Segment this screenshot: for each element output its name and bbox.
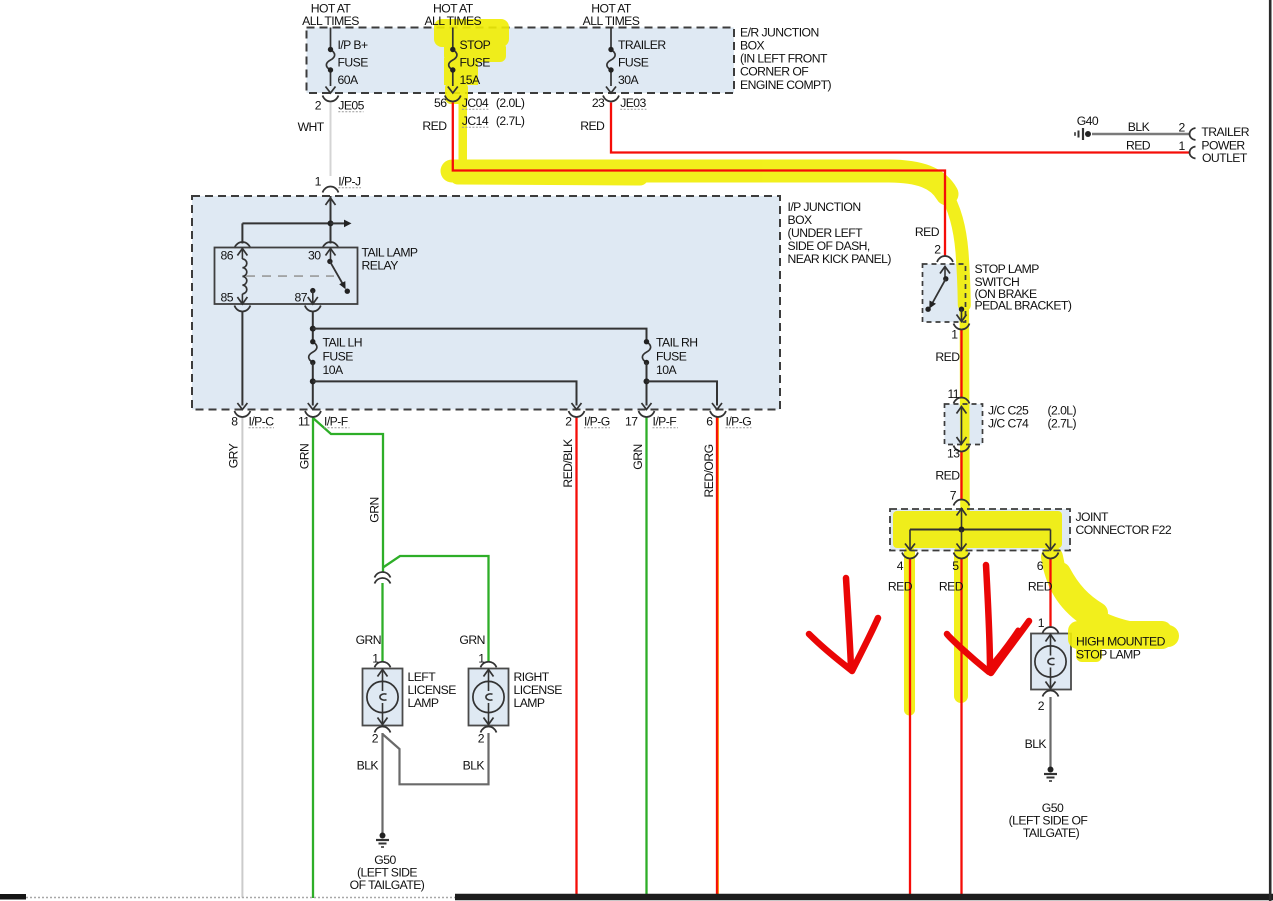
svg-text:I/P-C: I/P-C bbox=[249, 415, 275, 429]
svg-text:TAIL RH: TAIL RH bbox=[656, 336, 698, 350]
svg-text:2: 2 bbox=[1178, 121, 1185, 135]
svg-text:LAMP: LAMP bbox=[408, 696, 439, 710]
svg-text:I/P-G: I/P-G bbox=[726, 415, 752, 429]
connector JE03 cup bbox=[603, 96, 619, 102]
svg-text:RIGHT: RIGHT bbox=[514, 670, 550, 684]
connector JE05 cup bbox=[323, 96, 339, 102]
joint connector F22 box bbox=[890, 509, 1070, 551]
high mounted stop lamp symbol bbox=[1035, 635, 1066, 689]
svg-text:LICENSE: LICENSE bbox=[408, 683, 457, 697]
svg-text:JE05: JE05 bbox=[338, 99, 364, 113]
right license lamp symbol bbox=[473, 670, 504, 725]
wire branch to I/P-G pin 6 bbox=[647, 381, 718, 405]
svg-text:60A: 60A bbox=[338, 73, 359, 87]
wire relay 87 to tail LH fuse bbox=[312, 312, 314, 342]
stop lamp switch internals bbox=[925, 267, 966, 322]
svg-text:I/P-F: I/P-F bbox=[653, 415, 677, 429]
relay mechanical dashed link bbox=[246, 275, 334, 277]
node: wire from I/P-J entry to relay bbox=[330, 196, 332, 244]
wire BLK joining license lamps grounds bbox=[383, 733, 489, 784]
svg-text:FUSE: FUSE bbox=[618, 56, 649, 70]
svg-text:I/P JUNCTION: I/P JUNCTION bbox=[788, 200, 861, 214]
svg-text:30: 30 bbox=[308, 249, 321, 263]
relay pin 30 arrow bbox=[326, 249, 336, 256]
highlighter band along red wire to stop lamp switch bbox=[452, 171, 947, 194]
svg-text:11: 11 bbox=[298, 415, 310, 429]
relay pin 86 cap bbox=[234, 242, 250, 248]
svg-text:8: 8 bbox=[231, 415, 238, 429]
svg-text:RED: RED bbox=[935, 350, 960, 364]
wire BLK left license lamp pin 2 to G50 bbox=[381, 733, 383, 833]
svg-text:(UNDER LEFT: (UNDER LEFT bbox=[788, 226, 864, 240]
svg-text:6: 6 bbox=[1037, 559, 1044, 573]
svg-text:13: 13 bbox=[947, 447, 960, 461]
svg-text:J/C C25: J/C C25 bbox=[988, 404, 1029, 418]
fuse TRAILER 30A bbox=[606, 28, 616, 94]
svg-text:I/P-F: I/P-F bbox=[324, 415, 348, 429]
relay pin 85 arrow bbox=[241, 294, 243, 304]
wire RED from trailer fuse pin 23 to trailer power outlet pin 1 bbox=[611, 103, 1191, 153]
svg-text:CORNER OF: CORNER OF bbox=[740, 65, 808, 79]
connector I/P-F pin11 cup bbox=[305, 411, 321, 417]
wire tail LH fuse to I/P-F pin 11 bbox=[312, 363, 314, 406]
joint connector pin 4 cup bbox=[902, 553, 918, 559]
trailer power outlet pin 2 connector bbox=[1190, 128, 1196, 140]
wire GRY from I/P-C pin 8 to bottom bbox=[241, 417, 243, 898]
relay pin 85 cup bbox=[234, 306, 250, 312]
svg-text:NEAR KICK PANEL): NEAR KICK PANEL) bbox=[788, 252, 892, 266]
svg-text:BLK: BLK bbox=[1128, 120, 1150, 134]
wire GRN from I/P-F pin 11 to bottom bbox=[312, 417, 314, 898]
svg-text:2: 2 bbox=[478, 732, 485, 746]
junction connector J/C C25 box bbox=[945, 404, 983, 445]
svg-text:RED: RED bbox=[915, 225, 940, 239]
tail lamp relay box bbox=[215, 248, 358, 305]
svg-text:2: 2 bbox=[934, 243, 941, 257]
joint connector internals bbox=[905, 509, 1056, 551]
svg-text:ALL TIMES: ALL TIMES bbox=[583, 14, 640, 28]
svg-text:OF TAILGATE): OF TAILGATE) bbox=[350, 878, 425, 892]
svg-text:10A: 10A bbox=[656, 363, 677, 377]
stop lamp switch box border bbox=[923, 264, 966, 322]
wire RED/BLK from I/P-G pin 2 to bottom bbox=[575, 417, 577, 894]
wire RED joint connector pin 4 to bottom bbox=[909, 558, 911, 894]
svg-text:I/P-J: I/P-J bbox=[338, 175, 361, 189]
fuse I/P B+ 60A bbox=[326, 28, 336, 94]
svg-text:HIGH MOUNTED: HIGH MOUNTED bbox=[1076, 635, 1166, 649]
svg-text:JOINT: JOINT bbox=[1076, 510, 1110, 524]
highlighter band through pin 5 bbox=[954, 552, 968, 696]
svg-text:LEFT: LEFT bbox=[408, 670, 437, 684]
left license lamp symbol bbox=[367, 670, 398, 725]
svg-text:I/P-G: I/P-G bbox=[584, 415, 610, 429]
trailer power outlet pin 1 connector bbox=[1190, 147, 1196, 159]
tail LH fuse 10A bbox=[309, 342, 317, 363]
wire arrow continuing right bbox=[331, 222, 347, 224]
J/C pin 13 cup bbox=[954, 446, 970, 452]
svg-text:2: 2 bbox=[565, 415, 572, 429]
wire RED from J/C pin 13 to joint connector pin 7 bbox=[960, 452, 962, 501]
relay switch arm bbox=[327, 259, 332, 264]
svg-text:GRN: GRN bbox=[368, 497, 382, 522]
relay pin 87 bbox=[310, 288, 315, 293]
svg-text:WHT: WHT bbox=[298, 120, 325, 134]
svg-text:G40: G40 bbox=[1077, 114, 1099, 128]
joint connector pin 7 cap bbox=[954, 500, 970, 506]
ground G50 right bbox=[1044, 767, 1057, 782]
svg-text:1: 1 bbox=[315, 175, 322, 189]
svg-text:CONNECTOR F22: CONNECTOR F22 bbox=[1076, 523, 1172, 537]
wire RED/ORG from I/P-G pin 6 to bottom bbox=[716, 417, 718, 894]
svg-text:STOP: STOP bbox=[460, 38, 491, 52]
highlighter horn over pin 6 to stop lamp label bbox=[1052, 557, 1168, 636]
svg-text:10A: 10A bbox=[323, 363, 344, 377]
svg-text:GRN: GRN bbox=[298, 444, 312, 469]
svg-text:1: 1 bbox=[372, 652, 379, 666]
svg-text:FUSE: FUSE bbox=[338, 56, 369, 70]
svg-text:1: 1 bbox=[951, 328, 958, 342]
wire BLK from G40 to trailer power outlet pin 2 bbox=[1092, 133, 1191, 136]
I/P box entry arrow pin 1 bbox=[326, 198, 336, 205]
svg-text:(2.7L): (2.7L) bbox=[1048, 417, 1077, 431]
right license lamp connector cap pin 1 bbox=[481, 662, 497, 668]
red annotation arrow left bbox=[846, 578, 851, 668]
svg-text:GRN: GRN bbox=[631, 444, 645, 469]
svg-text:JE03: JE03 bbox=[620, 96, 646, 110]
relay pin 30 cap bbox=[323, 242, 339, 248]
wire GRN branch to right license lamp bbox=[383, 556, 489, 662]
right license lamp cup pin 2 bbox=[481, 727, 497, 733]
svg-text:(IN LEFT FRONT: (IN LEFT FRONT bbox=[740, 52, 828, 66]
svg-text:11: 11 bbox=[947, 387, 959, 401]
highlighter band through pin 4 bbox=[904, 552, 915, 710]
bottom border dotted line bbox=[26, 897, 455, 899]
svg-text:1: 1 bbox=[1178, 139, 1185, 153]
svg-text:SIDE OF DASH,: SIDE OF DASH, bbox=[788, 239, 870, 253]
svg-text:RED: RED bbox=[939, 580, 964, 594]
svg-text:BLK: BLK bbox=[1025, 737, 1047, 751]
right page border bbox=[1269, 0, 1272, 901]
svg-text:87: 87 bbox=[295, 291, 308, 305]
svg-text:RED: RED bbox=[580, 119, 605, 133]
svg-text:2: 2 bbox=[372, 732, 379, 746]
svg-text:BOX: BOX bbox=[740, 39, 765, 53]
relay pin 87 cup bbox=[305, 306, 321, 312]
wire tail RH fuse to I/P-F pin 17 bbox=[646, 363, 648, 406]
svg-text:TAIL LAMP: TAIL LAMP bbox=[362, 246, 418, 260]
svg-text:STOP LAMP: STOP LAMP bbox=[1076, 648, 1141, 662]
relay pin 86 arrow bbox=[237, 249, 247, 256]
joint connector F22 box border bbox=[890, 509, 1070, 551]
connector JC04 cup bbox=[445, 96, 461, 102]
svg-text:PEDAL BRACKET): PEDAL BRACKET) bbox=[975, 299, 1072, 313]
relay coil bbox=[242, 259, 246, 294]
svg-text:23: 23 bbox=[592, 96, 605, 110]
stop lamp switch pin 2 cap bbox=[937, 256, 953, 262]
svg-text:2: 2 bbox=[315, 99, 322, 113]
J/C internal wire bbox=[957, 407, 967, 445]
ground G40 symbol bbox=[1075, 128, 1091, 140]
left license lamp cup pin 2 bbox=[375, 727, 391, 733]
svg-text:7: 7 bbox=[950, 489, 957, 503]
svg-text:FUSE: FUSE bbox=[460, 56, 491, 70]
high mounted stop lamp cap pin 1 bbox=[1043, 627, 1059, 633]
stop lamp switch pin 1 cup bbox=[954, 324, 970, 330]
svg-text:JC04: JC04 bbox=[462, 96, 489, 110]
svg-text:TRAILER: TRAILER bbox=[1201, 125, 1249, 139]
svg-text:5: 5 bbox=[952, 559, 959, 573]
svg-text:BOX: BOX bbox=[788, 213, 813, 227]
svg-text:ENGINE COMPT): ENGINE COMPT) bbox=[740, 78, 832, 92]
svg-text:(2.7L): (2.7L) bbox=[496, 114, 525, 128]
svg-text:RELAY: RELAY bbox=[362, 259, 399, 273]
svg-text:TAILGATE): TAILGATE) bbox=[1023, 826, 1080, 840]
svg-text:E/R JUNCTION: E/R JUNCTION bbox=[740, 26, 819, 40]
wire relay 85 to I/P-C pin 8 bbox=[241, 312, 243, 406]
fuse STOP 15A bbox=[448, 28, 458, 94]
svg-text:GRN: GRN bbox=[459, 633, 484, 647]
svg-text:56: 56 bbox=[434, 96, 447, 110]
red annotation arrow right bbox=[986, 565, 990, 670]
svg-text:TRAILER: TRAILER bbox=[618, 38, 666, 52]
E/R junction box bbox=[307, 28, 735, 94]
svg-text:ALL TIMES: ALL TIMES bbox=[302, 14, 359, 28]
inline connector on GRN wire bbox=[375, 572, 391, 577]
stop lamp switch box bbox=[923, 264, 966, 322]
svg-text:15A: 15A bbox=[460, 73, 481, 87]
svg-text:RED/ORG: RED/ORG bbox=[702, 444, 716, 497]
wire GRN from inline connector to left license lamp bbox=[381, 583, 383, 662]
svg-text:I/P B+: I/P B+ bbox=[338, 38, 368, 52]
svg-text:RED/BLK: RED/BLK bbox=[561, 439, 575, 488]
highlighter band down stop fuse wire bbox=[459, 100, 468, 164]
svg-text:LICENSE: LICENSE bbox=[514, 683, 563, 697]
svg-text:4: 4 bbox=[897, 559, 904, 573]
wire to tail RH fuse bbox=[313, 329, 647, 342]
svg-text:GRN: GRN bbox=[356, 633, 381, 647]
svg-text:LAMP: LAMP bbox=[514, 696, 545, 710]
svg-text:RED: RED bbox=[935, 469, 960, 483]
highlighter blob over STOP fuse bbox=[434, 19, 509, 47]
connector I/P-G pin2 cup bbox=[569, 411, 585, 417]
svg-text:STOP LAMP: STOP LAMP bbox=[975, 262, 1040, 276]
ground G50 left bbox=[376, 833, 389, 848]
highlighter fill inside joint connector F22 bbox=[893, 511, 1062, 548]
svg-text:BLK: BLK bbox=[357, 759, 379, 773]
svg-text:FUSE: FUSE bbox=[656, 350, 687, 364]
svg-text:RED: RED bbox=[888, 580, 913, 594]
bottom border bar left bbox=[0, 894, 26, 900]
J/C pin 11 cap bbox=[954, 398, 970, 404]
svg-text:2: 2 bbox=[1038, 699, 1045, 713]
joint connector pin 6 cup bbox=[1043, 553, 1059, 559]
high mounted stop lamp cup pin 2 bbox=[1043, 691, 1059, 697]
high mounted stop lamp box bbox=[1031, 634, 1071, 690]
svg-text:1: 1 bbox=[1038, 616, 1045, 630]
tail RH fuse 10A bbox=[642, 342, 650, 363]
wire RED joint connector pin 6 to high mounted stop lamp pin 1 bbox=[1049, 558, 1051, 628]
svg-text:RED: RED bbox=[1028, 580, 1053, 594]
svg-text:JC14: JC14 bbox=[462, 114, 489, 128]
bottom border bar right bbox=[455, 894, 1273, 901]
wire BLK high mounted stop lamp pin 2 to G50 bbox=[1049, 697, 1051, 767]
wire GRN from I/P-F pin 17 to bottom bbox=[645, 417, 647, 894]
svg-text:GRY: GRY bbox=[227, 443, 241, 468]
svg-text:(2.0L): (2.0L) bbox=[1048, 404, 1077, 418]
joint connector pin 5 cup bbox=[954, 553, 970, 559]
wire RED joint connector pin 5 to bottom bbox=[960, 558, 962, 894]
I/P junction box bbox=[192, 196, 780, 410]
svg-text:6: 6 bbox=[706, 415, 713, 429]
connector I/P-G pin6 cup bbox=[710, 411, 726, 417]
svg-text:85: 85 bbox=[221, 291, 234, 305]
svg-text:86: 86 bbox=[221, 249, 234, 263]
left license lamp box bbox=[363, 669, 403, 726]
svg-text:(2.0L): (2.0L) bbox=[496, 96, 525, 110]
svg-text:BLK: BLK bbox=[463, 759, 485, 773]
wire RED from stop fuse pin 56 to stop lamp switch pin 2 bbox=[453, 103, 945, 257]
wire RED from stop lamp switch pin 1 to J/C pin 11 bbox=[960, 329, 962, 399]
svg-text:1: 1 bbox=[478, 652, 485, 666]
wire GRN branch from pin 11 to license lamps bbox=[313, 418, 383, 572]
svg-text:RED: RED bbox=[422, 119, 447, 133]
wire branch to I/P-G pin 2 bbox=[313, 381, 577, 405]
svg-text:TAIL LH: TAIL LH bbox=[323, 336, 363, 350]
svg-text:J/C C74: J/C C74 bbox=[988, 417, 1029, 431]
connector I/P-J cap bbox=[323, 187, 339, 193]
junction connector J/C C25 box border bbox=[945, 404, 983, 445]
left license lamp connector cap pin 1 bbox=[375, 662, 391, 668]
svg-text:30A: 30A bbox=[618, 73, 639, 87]
svg-text:FUSE: FUSE bbox=[323, 350, 354, 364]
svg-text:RED: RED bbox=[1126, 139, 1151, 153]
wire WHT from JE05 to I/P-J bbox=[330, 103, 332, 177]
right license lamp box bbox=[469, 669, 509, 726]
svg-text:ALL TIMES: ALL TIMES bbox=[424, 14, 481, 28]
svg-text:17: 17 bbox=[625, 415, 638, 429]
connector I/P-C cup bbox=[234, 411, 250, 417]
connector I/P-F pin17 cup bbox=[639, 411, 655, 417]
svg-text:OUTLET: OUTLET bbox=[1202, 151, 1248, 165]
